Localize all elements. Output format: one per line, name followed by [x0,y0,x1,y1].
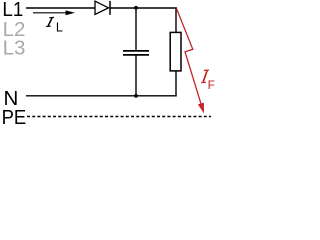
svg-text:F: F [208,78,215,92]
svg-text:L3: L3 [3,37,26,60]
svg-text:L: L [56,20,63,34]
svg-text:PE: PE [2,106,27,129]
